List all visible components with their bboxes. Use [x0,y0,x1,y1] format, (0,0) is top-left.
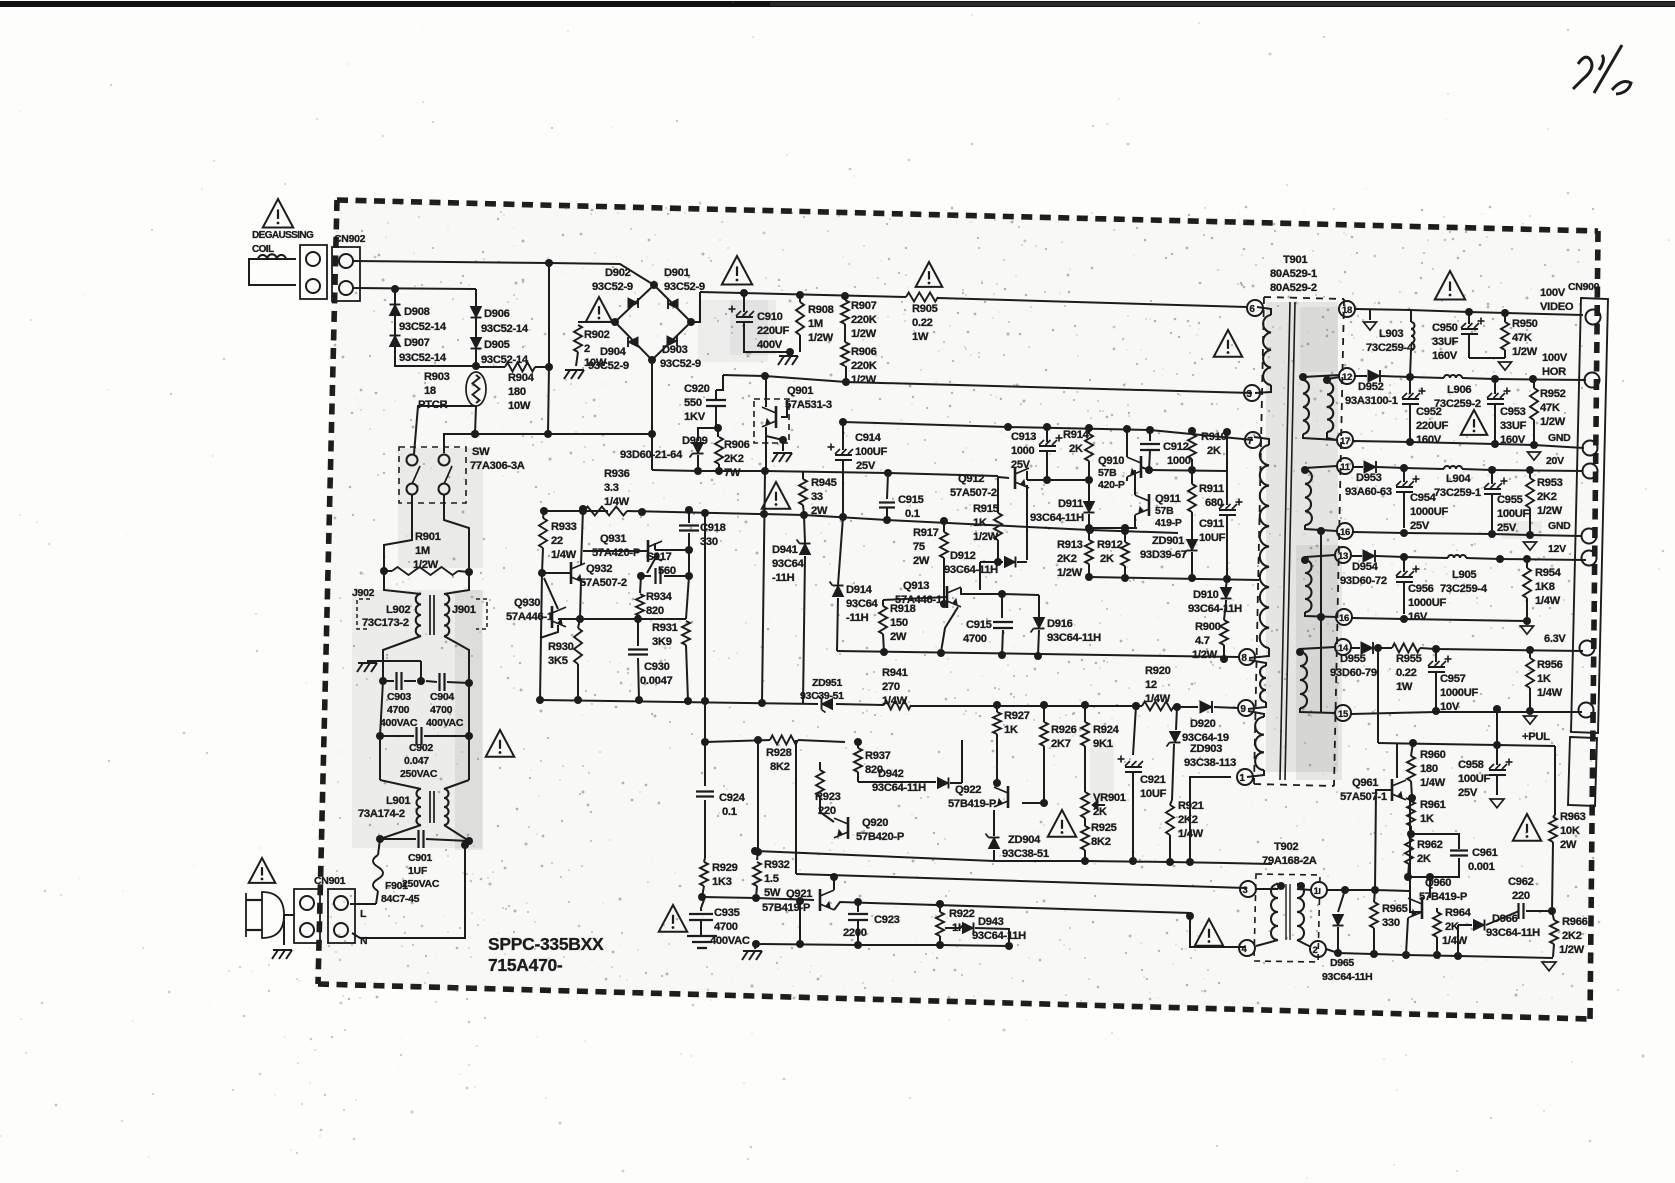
row pin16 GND [1353,532,1581,536]
wire fuse to CN901 L [350,903,376,905]
wire Q961 collector [1396,743,1398,778]
svg-text:R910: R910 [1201,431,1227,443]
svg-text:84C7-45: 84C7-45 [381,893,420,905]
svg-text:C917: C917 [646,551,672,563]
svg-text:-11H: -11H [772,572,795,584]
svg-text:D952: D952 [1358,381,1384,393]
diode D943 93C64-11H [963,923,974,934]
T901 pin 1 [1237,769,1253,785]
transformer T901 dashed box [1264,297,1344,299]
svg-text:93C52-9: 93C52-9 [664,281,705,293]
CN900 pin 6.3V [1580,641,1595,656]
svg-text:D910: D910 [1193,589,1219,601]
transistor Q961 57A507-1 [1391,779,1394,801]
svg-text:L905: L905 [1452,569,1476,581]
rail E to T901 pin 8 [837,651,1239,657]
svg-text:2W: 2W [890,631,907,643]
zener ZD951 93C39-51 [822,699,833,710]
wire rail B to T901 pin 3 [723,375,1252,393]
row pin13 12V [1351,555,1362,557]
dashed enclosure border [337,200,1598,231]
warning triangle degaussing [263,199,293,228]
capacitor C918 330 [688,510,690,523]
svg-text:C914: C914 [855,432,882,444]
capacitor C915m 0.1 [887,473,888,499]
svg-text:2K: 2K [1093,806,1107,818]
svg-text:R966: R966 [1562,916,1588,928]
diode D953 93A60-63 [1364,461,1376,473]
svg-text:93C64-11H: 93C64-11H [1486,927,1540,939]
svg-text:SW: SW [472,446,490,458]
resistor R962 2K [1405,838,1413,864]
wire R901 rail to L902 [384,571,421,594]
svg-text:Q930: Q930 [514,597,540,609]
resistor R905 0.22 1W [906,293,938,302]
CN900 pin 12V [1582,551,1597,566]
svg-text:16V: 16V [1408,611,1428,623]
resistor R922 1K [936,912,944,936]
svg-text:0.047: 0.047 [404,755,429,767]
capacitor C953 33UF 160V [1494,379,1496,394]
svg-text:9K1: 9K1 [1093,738,1113,750]
svg-text:R960: R960 [1420,749,1446,761]
svg-text:1/2W: 1/2W [1192,649,1218,661]
warning triangle near VR901 [1048,810,1076,837]
svg-text:C904: C904 [430,691,454,703]
svg-text:93C64-11H: 93C64-11H [1047,632,1101,644]
svg-text:3: 3 [1243,885,1248,896]
wire Q901 base [781,400,787,417]
svg-text:93C64: 93C64 [846,598,879,610]
svg-text:SPPC-335BXX: SPPC-335BXX [488,934,604,954]
rail F bottom oscillator [540,700,818,704]
svg-text:D942: D942 [878,768,904,780]
T902 pin 3 [1240,881,1256,897]
svg-text:220: 220 [818,805,836,817]
svg-text:F901: F901 [385,880,408,892]
svg-text:D941: D941 [772,544,798,556]
svg-text:R937: R937 [865,750,891,762]
svg-text:419-P: 419-P [1155,517,1182,529]
svg-text:180: 180 [1420,763,1438,775]
rail J resistor bottoms [1089,577,1259,580]
svg-text:C955: C955 [1497,494,1523,506]
warning triangle near C902 [486,730,514,757]
svg-text:D954: D954 [1352,561,1379,573]
resistor R928 8K2 [705,740,770,742]
svg-text:400VAC: 400VAC [426,717,464,729]
row pin16b [1352,618,1527,621]
svg-text:R902: R902 [584,329,610,341]
capacitor C924 0.1 [704,742,706,786]
svg-text:L902: L902 [386,604,410,616]
svg-text:C902: C902 [409,742,433,754]
diode D952 93A3100-1 [1368,370,1380,382]
resistor R924 9K1 [1081,722,1089,746]
svg-text:C956: C956 [1408,583,1434,595]
wire T902 pin1 node [1327,890,1410,891]
svg-text:Q961: Q961 [1352,777,1378,789]
svg-text:R922: R922 [949,908,975,920]
svg-text:CN902: CN902 [334,233,366,245]
svg-text:ZD904: ZD904 [1008,834,1041,846]
wire switch to R901 [384,494,412,571]
svg-text:93C64-11H: 93C64-11H [944,564,998,576]
inductor L905 73C259-4 [1448,555,1466,558]
svg-text:D965: D965 [1330,957,1354,969]
svg-text:220K: 220K [851,314,877,326]
svg-text:93C38-51: 93C38-51 [1002,848,1049,860]
svg-text:93C64-11H: 93C64-11H [872,782,926,794]
capacitor C923 2200 [857,902,859,912]
diode D909 93D60-21-64 [698,428,718,441]
svg-text:C910: C910 [757,311,783,323]
svg-text:0.22: 0.22 [912,317,933,329]
svg-text:ZD903: ZD903 [1190,743,1222,755]
wire Q922 region [961,740,963,783]
svg-text:57B419-P: 57B419-P [948,798,997,810]
svg-text:C903: C903 [387,691,411,703]
svg-text:R915: R915 [973,503,999,515]
svg-text:DEGAUSSING: DEGAUSSING [252,230,314,241]
resistor R952 47K 1/2W [1530,388,1538,420]
svg-text:Q932: Q932 [586,563,612,575]
svg-text:2K2: 2K2 [1537,491,1557,503]
svg-text:C930: C930 [644,661,670,673]
CN900 pin GND1 [1583,441,1598,456]
switch SW 77A306-3A [399,447,466,503]
svg-text:93C52-9: 93C52-9 [592,281,633,293]
transistor Q932 57A507-2 [570,562,573,584]
zener ZD903 93C38-113 [1176,707,1177,730]
svg-text:93C52-14: 93C52-14 [399,321,447,333]
warning triangle near R945 [762,482,790,509]
diode D911 93C64-11H [1084,502,1095,513]
svg-text:R917: R917 [913,527,939,539]
left vertical to bottom rail [540,573,542,700]
svg-text:COIL: COIL [252,244,274,255]
svg-text:0.1: 0.1 [905,508,920,520]
svg-text:C915: C915 [966,619,992,631]
svg-text:33: 33 [811,491,823,503]
svg-text:R962: R962 [1417,839,1443,851]
svg-text:ZD901: ZD901 [1152,535,1184,547]
svg-text:D953: D953 [1356,472,1382,484]
T902 pin 2 [1310,941,1326,957]
diode D916 93C64-11H [1038,595,1040,617]
svg-text:100UF: 100UF [1497,508,1530,520]
svg-text:1/2W: 1/2W [1512,346,1538,358]
svg-text:220UF: 220UF [1416,420,1449,432]
svg-text:C901: C901 [408,852,432,864]
svg-text:33UF: 33UF [1432,336,1459,348]
T901 pin 7 [1245,432,1261,448]
svg-text:J902: J902 [352,587,375,599]
svg-text:Q931: Q931 [600,533,626,545]
svg-text:R964: R964 [1445,907,1472,919]
CN900 pin PUL [1579,703,1594,718]
resistor R955 0.22 1W [1392,644,1420,653]
svg-text:1M: 1M [808,318,823,330]
svg-text:R925: R925 [1091,822,1117,834]
wire rail mid 742 [651,360,653,470]
transistor Q912 57A507-2 [1014,467,1017,489]
svg-text:R965: R965 [1382,903,1408,915]
svg-text:16: 16 [1340,527,1350,538]
zener ZD901 93D39-67 [1187,540,1198,551]
svg-text:R950: R950 [1512,318,1538,330]
wire rail 852 to ZD904 row [755,851,994,861]
svg-text:93D60-79: 93D60-79 [1330,667,1377,679]
warning triangle above rail B right [1214,330,1242,357]
wire Q901 emitter to ground [766,427,783,440]
svg-text:R911: R911 [1199,483,1224,495]
capacitor C955 100UF 25V [1491,470,1493,484]
diode D942 93C64-11H [938,778,949,789]
svg-text:18: 18 [1342,305,1352,316]
svg-text:R963: R963 [1560,811,1586,823]
row pin11 20V [1353,466,1363,468]
svg-text:D955: D955 [1340,653,1366,665]
T901 pin 6 [1247,300,1263,316]
svg-text:57B: 57B [1155,505,1174,517]
svg-text:D943: D943 [978,916,1004,928]
svg-text:93C64-11H: 93C64-11H [1322,971,1372,983]
diode D966 93C64-11H [1474,920,1485,931]
svg-text:+PUL: +PUL [1522,731,1550,743]
svg-text:D906: D906 [484,308,510,320]
row pin15 [1351,712,1436,714]
wire AC node to switch [444,434,652,453]
fuse F901 84C7-45 [378,839,380,855]
svg-text:1/4W: 1/4W [1537,687,1563,699]
svg-text:93A3100-1: 93A3100-1 [1345,395,1398,407]
T901 secondary winding 14-15 [1300,647,1335,652]
T902 pin 1 [1311,882,1327,898]
capacitor C950 33UF 160V [1468,312,1470,324]
svg-text:C950: C950 [1432,322,1458,334]
diode D905 [471,338,482,349]
svg-text:93C52-9: 93C52-9 [660,358,701,370]
resistor R963 10K 2W [1549,817,1557,842]
resistor R912 2K [1121,542,1129,566]
svg-text:93C64-11H: 93C64-11H [972,930,1026,942]
wire CN902 pin1 to bridge [353,261,654,285]
svg-text:80A529-1: 80A529-1 [1270,268,1317,280]
svg-text:1M: 1M [415,545,430,557]
wire Q913 emitter [941,607,958,652]
svg-text:Q920: Q920 [862,817,888,829]
svg-text:1/4W: 1/4W [1420,777,1446,789]
svg-text:17: 17 [1340,436,1350,447]
svg-text:10K: 10K [1560,825,1580,837]
svg-text:J901: J901 [452,604,476,616]
resistor R964 2K 1/4W [1433,912,1441,937]
svg-text:22: 22 [551,535,563,547]
svg-text:160V: 160V [1416,434,1442,446]
svg-text:57A507-2: 57A507-2 [950,487,997,499]
transistor Q911 57B 419-P [1148,494,1151,516]
svg-text:3K9: 3K9 [652,636,672,648]
capacitor C903 4700 400VAC [383,680,394,682]
svg-text:4700: 4700 [387,704,410,716]
svg-text:2K: 2K [1100,553,1114,565]
handwritten page mark P1/2 [1573,57,1592,89]
svg-text:C920: C920 [684,383,710,395]
svg-text:1/4W: 1/4W [1145,693,1171,705]
svg-text:100UF: 100UF [855,446,888,458]
svg-text:1K3: 1K3 [712,876,732,888]
T902 pin 4 [1239,940,1255,956]
svg-text:1K: 1K [1004,724,1018,736]
ground Q921 rail [755,944,756,949]
wire node to R904 [548,263,550,367]
capacitor C954 1000UF 25V [1403,468,1405,482]
capacitor C956 1000UF 16V [1403,557,1405,572]
ground R902 [576,352,578,366]
resistor R965 330 [1374,890,1375,902]
svg-text:R961: R961 [1420,799,1446,811]
wire pin18 100V VIDEO rail [1355,309,1410,310]
wire 743 row [1378,743,1497,745]
svg-text:R930: R930 [548,641,574,653]
CN900 pin 20V [1583,464,1598,479]
svg-text:10W: 10W [584,357,607,369]
resistor R917 75 2W [940,532,948,558]
svg-text:D916: D916 [1047,618,1073,630]
resistor R926 2K7 [1040,722,1048,746]
svg-text:93C64-11H: 93C64-11H [1188,603,1242,615]
wire Q901 emitter column [765,436,767,471]
wire C950 R950 bottom [1469,357,1505,359]
svg-text:R900: R900 [1195,621,1221,633]
svg-text:180: 180 [508,386,526,398]
capacitor C921 10UF [1133,706,1136,755]
resistor R945 33 2W [802,472,804,479]
svg-text:20V: 20V [1546,455,1564,467]
wire PUL row to R963 [1497,745,1555,746]
capacitor C935 4700 400VAC [701,897,705,908]
svg-text:1/4W: 1/4W [1535,595,1561,607]
svg-text:C911: C911 [1199,518,1224,530]
svg-text:11: 11 [1340,462,1350,473]
svg-text:VIDEO: VIDEO [1540,301,1574,313]
return triangle C958 [1490,799,1504,808]
resistor R904 180 10W [476,366,505,368]
svg-text:T902: T902 [1274,841,1298,853]
svg-text:D909: D909 [682,435,708,447]
svg-text:C961: C961 [1472,847,1498,859]
resistor R950 47K 1/2W [1501,322,1509,350]
diode D907 [390,336,401,347]
svg-text:420-P: 420-P [1098,479,1125,491]
svg-text:57B: 57B [1098,467,1117,479]
resistor R906b 2K2 7W [717,428,719,437]
capacitor C952 220UF 160V [1409,377,1411,394]
svg-text:R934: R934 [646,591,673,603]
svg-text:4700: 4700 [963,633,987,645]
wire Q913 collector row 594 [961,588,1039,595]
svg-text:C918: C918 [700,522,726,534]
svg-text:1W: 1W [1396,681,1413,693]
resistor R902 2 10W [578,321,615,323]
resistor R936 3.3 1/4W [584,507,627,516]
svg-text:Q910: Q910 [1098,455,1124,467]
svg-text:C962: C962 [1508,876,1534,888]
svg-text:0.22: 0.22 [1396,667,1417,679]
svg-text:3.3: 3.3 [604,482,619,494]
inductor L901 73A174-2 [379,736,381,780]
svg-text:73C173-2: 73C173-2 [362,617,409,629]
svg-text:D901: D901 [664,267,690,279]
transistor Q921 57B419-P [819,889,822,911]
svg-text:1/4W: 1/4W [604,496,630,508]
svg-text:8: 8 [1241,653,1247,664]
capacitor C901 1UF 250VAC [380,825,421,839]
svg-text:47K: 47K [1540,402,1560,414]
wire base rail 898 [702,897,814,900]
svg-text:D911: D911 [1058,498,1083,510]
svg-text:270: 270 [882,681,900,693]
svg-text:1/4W: 1/4W [1442,935,1468,947]
wire vertical 758 to Q921 area [757,740,759,852]
T901 primary winding 9-1 [1248,711,1264,717]
svg-text:220UF: 220UF [757,325,790,337]
svg-text:12V: 12V [1548,543,1566,555]
resistor R913 2K2 1/2W [1085,540,1093,564]
row pin12 100V HOR [1355,375,1367,377]
svg-text:100V: 100V [1542,352,1568,364]
svg-text:93C64: 93C64 [772,558,805,570]
svg-text:R955: R955 [1396,653,1422,665]
svg-text:R952: R952 [1540,388,1566,400]
svg-text:150: 150 [890,617,908,629]
warning triangle T902 [1195,919,1223,946]
resistor R910 2K [1188,434,1196,459]
svg-text:3K5: 3K5 [548,655,568,667]
svg-text:1K8: 1K8 [1535,581,1555,593]
svg-text:93D60-72: 93D60-72 [1340,575,1387,587]
svg-text:93C52-14: 93C52-14 [481,354,529,366]
svg-text:4700: 4700 [714,921,738,933]
ground C935 earth [687,935,717,937]
svg-text:L904: L904 [1446,473,1471,485]
rail G bottom of Q901 [652,470,998,476]
capacitor C904 4700 400VAC [426,681,437,682]
svg-text:0.001: 0.001 [1468,861,1495,873]
wire rail I Q912 collector [1027,479,1089,481]
svg-text:R956: R956 [1537,659,1563,671]
diode D906 [475,289,477,366]
svg-text:57A446-1: 57A446-1 [506,611,553,623]
svg-text:C915: C915 [898,494,924,506]
diode D903 93C52-9 [667,336,677,346]
svg-text:715A470-: 715A470- [488,955,563,975]
svg-text:R932: R932 [764,859,790,871]
wire C918 bottom row [655,549,689,551]
svg-text:1/2W: 1/2W [1057,567,1083,579]
svg-text:13: 13 [1338,551,1348,562]
svg-text:D907: D907 [404,337,430,349]
svg-text:400V: 400V [757,339,783,351]
vertical Q901 emitter to rail F [762,471,765,703]
warning triangle above 100V rail [1435,271,1465,300]
row pin14 6.3V [1351,647,1360,649]
svg-text:R945: R945 [811,477,837,489]
svg-text:C958: C958 [1458,759,1484,771]
svg-text:CN901: CN901 [314,875,346,887]
svg-text:1000: 1000 [1011,445,1034,457]
